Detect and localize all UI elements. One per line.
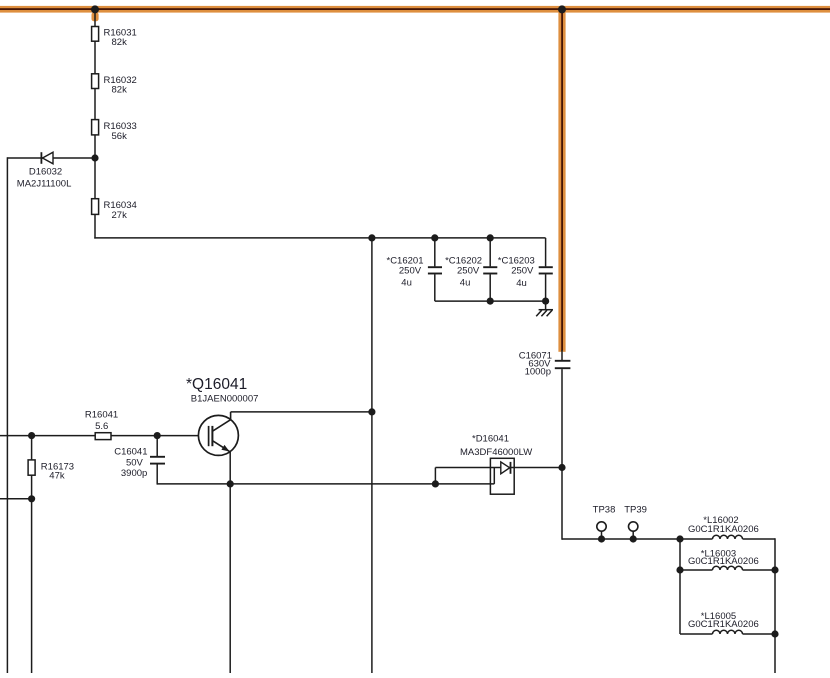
value label L16003 G0C1R1KA0206 [688,548,759,567]
value label C16203 250V 4u [498,255,535,289]
svg-text:50V: 50V [126,457,144,468]
svg-text:TP38: TP38 [593,504,616,515]
svg-text:G0C1R1KA0206: G0C1R1KA0206 [688,524,759,535]
svg-text:5.6: 5.6 [95,421,108,432]
wire: vertical B+ branch (orange highlighted) down to C16071 [558,9,565,351]
svg-text:*D16041: *D16041 [472,433,509,444]
wire: left rail down from D16032 [6,157,8,673]
wire: R16034 down to feed rail [94,214,96,238]
value label R16034 27k [104,200,137,221]
capacitor C16071 [555,350,571,368]
node: L16003 left junction [676,566,683,573]
test point TP38 [597,522,606,539]
wire: base drive rail from left edge [0,435,96,437]
svg-text:82k: 82k [112,85,128,96]
test point TP39 [629,522,638,539]
svg-text:MA2J11100L: MA2J11100L [17,178,72,189]
wire: emitter rail (C16041 bottom to D16041 anode loop) [157,483,494,485]
resistor R16033 [92,120,99,135]
svg-text:250V: 250V [457,265,480,276]
node: feed rail / C16202 junction [487,234,494,241]
wire: output run to test points and inductor bank [562,538,680,540]
node: TP38 junction [598,535,605,542]
node: TP39 junction [630,535,637,542]
inductor L16005 [680,630,775,634]
value label R16173 47k [41,461,74,481]
wire: top B+ bus (orange highlighted net) [0,6,830,13]
node: L16005 right junction [771,630,778,637]
svg-text:D16032: D16032 [29,166,62,177]
value label R16033 56k [104,121,137,142]
wire: horizontal feed rail to capacitor bank [94,237,545,239]
node: collector / center rail junction [368,408,375,415]
wire: inner package stub from emitter rail up to diode line [493,468,495,484]
label D16032 MA2J11100L [17,166,72,189]
wire: D16032 branch from tap node to left rail [7,157,95,159]
svg-text:4u: 4u [516,278,527,289]
svg-text:4u: 4u [401,278,412,289]
svg-text:TP39: TP39 [624,504,647,515]
resistor R16041 [95,433,111,440]
wire: R16031 to R16032 [94,41,96,74]
wire: inductor bank right rail down to bottom edge [774,538,776,673]
svg-text:4u: 4u [460,277,471,288]
resistor R16034 [92,199,99,215]
node: feed rail / center rail junction [368,234,375,241]
value label C16202 250V 4u [445,255,482,288]
label Q16041 B1JAEN000007 [186,376,258,405]
svg-text:MA3DF46000LW: MA3DF46000LW [460,447,532,458]
wire: tap node to R16034 [94,158,96,199]
node: junction of top bus and vertical branch [558,5,566,13]
capacitor C16201 [428,238,442,301]
diode D16032 [41,152,53,164]
value label C16041 50V 3900p [114,447,147,479]
value label R16032 82k [104,75,137,96]
node: C16041 top junction [154,432,161,439]
node: C16202 bottom junction [487,298,494,305]
value label C16071 630V 1000p [519,350,552,377]
svg-text:G0C1R1KA0206: G0C1R1KA0206 [688,619,759,630]
node: R16173 bottom junction [28,495,35,502]
ground (chassis ground symbol) [536,301,553,316]
diode D16041 (packaged) [490,458,514,494]
wire: R16173 bottom rail down [31,499,33,673]
node: C16203 bottom / ground junction [542,298,549,305]
svg-text:1000p: 1000p [525,367,551,378]
svg-text:R16041: R16041 [85,409,118,420]
value label R16041 5.6 [85,409,118,432]
wire: C16071 down to D16041 cathode node and output corner [561,369,563,540]
resistor R16031 [92,27,99,42]
svg-text:G0C1R1KA0206: G0C1R1KA0206 [688,556,759,567]
svg-text:82k: 82k [112,37,128,48]
wire: bus stub to R16031 top [94,10,96,27]
wire: R16033 to divider tap node [94,135,96,158]
wire: capacitor bank bottom bus [435,300,546,302]
node: R16173 top junction [28,432,35,439]
svg-text:250V: 250V [511,265,534,276]
svg-text:27k: 27k [112,210,128,221]
inductor L16002 [680,535,775,539]
wire: inductor bank left branch [679,539,681,634]
svg-text:47k: 47k [49,471,65,482]
capacitor C16041 [150,436,165,485]
value label L16005 G0C1R1KA0206 [688,611,759,630]
node: feed rail / C16201 junction [431,234,438,241]
resistor R16173 [28,436,35,499]
wire: stub from left edge to R16173 bottom [0,498,32,500]
wire: R16041 to Q16041 base [111,435,208,437]
capacitor C16203 [539,238,553,301]
wire: R16032 to R16033 [94,89,96,120]
wire: center vertical rail [371,238,373,673]
wire: emitter down to bottom edge [229,452,231,673]
svg-text:B1JAEN000007: B1JAEN000007 [191,393,259,404]
value label L16002 G0C1R1KA0206 [688,515,759,535]
node: emitter / emitter rail junction [227,480,234,487]
svg-text:*Q16041: *Q16041 [186,376,247,393]
node: D16041 cathode / C16071 junction [558,464,565,471]
wire: orange highlighted stub from bus down to R16031 [92,12,99,21]
transistor Q16041 [198,412,238,456]
wire: anode riser and horizontal run into D16041 package [435,468,562,484]
wire: collector to center rail [231,411,372,413]
node: divider tap junction (R16033/R16034/D16032) [91,154,98,161]
value label C16201 250V 4u [387,255,424,288]
svg-text:C16041: C16041 [114,447,147,458]
svg-text:3900p: 3900p [121,468,147,479]
node: L16003 right junction [771,566,778,573]
label D16041 MA3DF46000LW [460,433,532,458]
value label R16031 82k [104,27,137,48]
capacitor C16202 [483,238,497,301]
resistor R16032 [92,74,99,89]
svg-text:56k: 56k [112,131,128,142]
svg-text:250V: 250V [399,265,422,276]
node: emitter rail / D16041 anode branch junction [432,480,439,487]
inductor L16003 [680,566,775,570]
node: inductor bank input junction [676,535,683,542]
node: junction of top bus and resistor divider [91,5,99,13]
